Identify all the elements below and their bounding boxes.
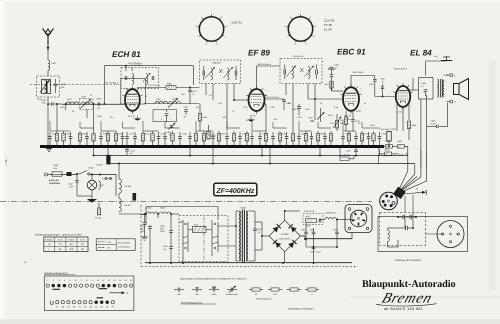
resistor R409: [198, 104, 208, 131]
svg-text:0,5μF: 0,5μF: [316, 251, 322, 254]
svg-text:4: 4: [224, 36, 225, 39]
resistor R414: [378, 149, 398, 156]
wire plug feeders: [408, 146, 427, 181]
svg-text:12V: 12V: [107, 241, 111, 244]
svg-text:C 440: C 440: [421, 82, 427, 85]
svg-text:C422: C422: [242, 133, 247, 136]
svg-text:4,5V/0,75mA·A: 4,5V/0,75mA·A: [266, 96, 280, 99]
capacitor C415: [323, 132, 327, 146]
svg-text:4: 4: [313, 36, 314, 39]
svg-text:Rot·: Rot·: [434, 55, 438, 58]
capacitor C415: [163, 132, 167, 146]
IF transformer L404 dashed box: [121, 68, 159, 89]
svg-text:12,6V/0,6A: 12,6V/0,6A: [49, 182, 60, 185]
node heater junction: [76, 173, 78, 175]
wire EF89 anode right: [264, 96, 284, 99]
svg-text:3: 3: [226, 25, 227, 28]
wire node tie: [123, 127, 136, 129]
choke Dr600: [319, 212, 352, 224]
svg-text:Bremen: Bremen: [380, 291, 435, 307]
capacitor C438: [351, 111, 359, 131]
svg-text:ab Gerät G 140 001: ab Gerät G 140 001: [384, 307, 423, 311]
svg-text:EBC 91: EBC 91: [232, 21, 243, 25]
wire EF89 anode up: [257, 66, 281, 89]
resistor R443 below bus: [340, 154, 354, 161]
resistor R444: [232, 131, 235, 146]
svg-text:234: 234: [110, 116, 113, 119]
supply dashed bottom border: [141, 266, 358, 268]
svg-text:1M: 1M: [288, 102, 291, 105]
svg-text:EL 84: EL 84: [410, 49, 432, 58]
wire top B+ bar: [426, 56, 452, 76]
svg-text:Spannungen und Ströme gemes: Spannungen und Ströme gemessen mit Multi…: [180, 278, 247, 281]
IF1 left cell: [125, 68, 134, 85]
svg-text:1: 1: [211, 12, 212, 15]
wire EBC91 grid: [308, 98, 343, 100]
capacitor C422: [238, 132, 246, 146]
coil L402: [66, 98, 79, 104]
svg-text:Dr402: Dr402: [146, 207, 152, 210]
legend trimmer: [226, 286, 238, 297]
resistor R414: [141, 131, 149, 146]
tube socket top view EBC91: [196, 12, 228, 45]
coil L405: [155, 98, 168, 104]
ground C430: [328, 67, 335, 69]
svg-text:2: 2: [310, 16, 311, 19]
svg-text:C408: C408: [182, 133, 187, 136]
transformer core: [242, 210, 244, 263]
svg-text:R401: R401: [60, 106, 65, 109]
fuse Si404: [52, 172, 62, 176]
vibrator contacts left: [183, 220, 188, 256]
capacitor C432: [427, 120, 438, 129]
arrow E: [110, 291, 129, 295]
vibrator wires: [179, 222, 236, 263]
Zerhacker solid frame: [378, 217, 468, 252]
svg-text:50: 50: [72, 110, 74, 113]
svg-text:ECH 81: ECH 81: [324, 19, 335, 23]
loudspeaker: [454, 79, 469, 100]
Zerhacker coil: [388, 228, 399, 247]
capacitor C608: [310, 228, 316, 247]
svg-text:C420: C420: [52, 133, 57, 136]
output transformer windings: [437, 79, 444, 98]
resistor R406: [166, 83, 176, 90]
svg-text:R418: R418: [221, 133, 226, 136]
Zerhacker tube circle: [437, 221, 464, 248]
Zerhacker cap mid: [398, 217, 414, 230]
svg-text:R433: R433: [356, 110, 361, 113]
resistor R432: [360, 131, 368, 146]
svg-text:500: 500: [311, 120, 314, 123]
svg-text:R437: R437: [340, 119, 345, 122]
resistor R421: [329, 131, 332, 146]
svg-text:0,1: 0,1: [232, 110, 235, 113]
svg-text:R438: R438: [370, 124, 375, 127]
wire speaker return: [439, 103, 447, 126]
wire node tie: [80, 127, 94, 129]
resistor R413: [397, 140, 408, 148]
wire antenna down: [47, 45, 49, 60]
svg-text:R1 400: R1 400: [96, 164, 103, 167]
svg-text:ZF=400KHz: ZF=400KHz: [215, 188, 254, 195]
svg-text:Blaupunkt-Autoradio: Blaupunkt-Autoradio: [362, 279, 456, 290]
IF2 coupling: [219, 69, 223, 73]
punch card frame: [44, 276, 133, 311]
capacitor C409: [99, 132, 107, 146]
punch row1 bars: [53, 288, 108, 291]
svg-text:50: 50: [145, 95, 147, 98]
svg-text:L404/C409·A: L404/C409·A: [130, 64, 143, 67]
svg-text:6: 6: [206, 42, 207, 45]
capacitor C403: [54, 79, 58, 93]
svg-text:EF 89: EF 89: [324, 23, 332, 27]
ground lamp: [87, 190, 97, 203]
wire EL84 drop lines: [397, 95, 427, 170]
svg-text:Si404: Si404: [53, 164, 59, 167]
Zerhacker dashed box: [380, 213, 426, 246]
svg-text:Rb 404: Rb 404: [125, 185, 132, 188]
wires IF3 down: [286, 84, 315, 132]
svg-text:7: 7: [170, 118, 171, 121]
resistor R423: [372, 131, 375, 146]
tube socket top view ECH81/EF89/EL84: [285, 12, 317, 45]
ground symbol left: [46, 146, 52, 151]
wire choke junctions: [145, 213, 172, 225]
svg-text:/150V: /150V: [160, 230, 166, 233]
capacitor C441: [68, 174, 92, 196]
capacitor C428: [292, 104, 301, 115]
ground triode cathode: [134, 116, 142, 121]
svg-text:gemessen im M4ß: gemessen im M4ß: [62, 233, 82, 236]
transformer primary winding: [239, 211, 240, 261]
svg-text:1: 1: [47, 279, 48, 282]
svg-text:1: 1: [394, 105, 395, 108]
wire C601 junction: [305, 238, 338, 248]
svg-text:Ü 402: Ü 402: [443, 74, 449, 77]
wire node tie: [196, 130, 213, 132]
svg-text:C405: C405: [41, 99, 47, 102]
legend cap 5000: [209, 287, 219, 296]
svg-text:6V: 6V: [70, 243, 73, 246]
svg-text:Si 400: Si 400: [88, 167, 95, 170]
svg-text:Schaltung des Zerhackers: Schaltung des Zerhackers: [395, 259, 423, 262]
resistor R408: [114, 131, 122, 146]
wire node tie: [299, 130, 312, 132]
capacitor C413: [184, 105, 190, 118]
capacitor padder: [161, 110, 171, 122]
svg-text:Mit Bezugspunkt: Mit Bezugspunkt: [256, 298, 272, 301]
svg-text:Rb 407: Rb 407: [125, 204, 132, 207]
svg-text:21: 21: [77, 306, 80, 309]
wire node tie: [318, 127, 331, 129]
resistor R428: [316, 131, 324, 146]
svg-text:R431: R431: [330, 122, 335, 125]
capacitor C609: [253, 222, 261, 250]
svg-text:R417: R417: [181, 93, 186, 96]
capacitor C416: [285, 132, 289, 146]
svg-text:250V/1,5mA·4: 250V/1,5mA·4: [394, 68, 408, 71]
punch row2 numbers: [56, 306, 115, 309]
tube EBC91: [341, 84, 362, 114]
svg-text:Brückenbetrieb: Brückenbetrieb: [118, 241, 130, 244]
svg-text:R423: R423: [262, 94, 267, 97]
svg-text:R414: R414: [145, 133, 150, 136]
chassis boundary dash-dot: [0, 201, 372, 203]
tube EL84: [393, 83, 413, 110]
capacitor C431: [369, 76, 396, 97]
trimmer C404: [166, 123, 176, 137]
resistor R446: [194, 131, 197, 146]
wire node tie: [252, 130, 266, 132]
svg-text:R432: R432: [364, 133, 369, 136]
svg-text:C601: C601: [301, 229, 306, 232]
svg-text:7: 7: [287, 36, 288, 39]
wire EF89 screen: [262, 104, 266, 131]
svg-text:8: 8: [196, 25, 197, 28]
wire EL84 anode: [409, 78, 419, 90]
svg-text:Z601: Z601: [194, 223, 198, 226]
B+ rail 2: [108, 163, 415, 165]
capacitor C604: [310, 247, 322, 263]
svg-text:R421: R421: [222, 116, 227, 119]
svg-text:SS 405: SS 405: [95, 217, 102, 220]
cable wedge: [393, 187, 406, 199]
svg-text:10E F/2,3kΩ·A: 10E F/2,3kΩ·A: [105, 82, 119, 85]
svg-text:1: 1: [342, 108, 343, 111]
svg-text:50V/1,5mA: 50V/1,5mA: [353, 71, 364, 74]
svg-text:6,3V/1,4A: 6,3V/1,4A: [49, 179, 59, 182]
capacitor C427: [297, 132, 305, 146]
svg-text:5: 5: [305, 42, 306, 45]
wire node tie: [101, 130, 116, 132]
bridge rectifier Gl600: [269, 220, 300, 251]
IF3 right cell: [305, 65, 318, 80]
svg-text:7: 7: [198, 36, 199, 39]
wire node tie: [143, 130, 159, 132]
label socket2 tubes: [324, 19, 335, 32]
capacitor C425: [133, 132, 137, 146]
antenna: [43, 29, 54, 52]
resistor R418: [217, 131, 225, 146]
svg-text:PO: PO: [456, 233, 459, 236]
ground EF89 cathode: [247, 117, 255, 122]
svg-text:7: 7: [141, 90, 142, 93]
wire RF line: [62, 103, 125, 105]
capacitor C437: [225, 132, 229, 146]
svg-text:5: 5: [216, 42, 217, 45]
svg-text:C602: C602: [140, 225, 145, 228]
svg-text:1: 1: [124, 108, 125, 111]
supply dashed left border: [140, 205, 142, 267]
svg-text:7: 7: [360, 88, 361, 91]
capacitor C440: [188, 132, 192, 146]
wire supply top feed: [146, 207, 218, 221]
svg-text:20: 20: [258, 231, 260, 234]
svg-text:C620: C620: [257, 228, 262, 231]
wire tuner to mixer line: [47, 97, 49, 104]
wires socket: [351, 213, 353, 239]
resistor R412: [384, 140, 397, 148]
transformer secondary winding: [246, 211, 247, 261]
potentiometer R427: [309, 108, 325, 122]
svg-text:Gl 600: Gl 600: [281, 233, 289, 236]
terminal lug: [133, 193, 137, 201]
resistor R423: [92, 131, 95, 146]
svg-text:Schaltungsspannungen: Schaltungsspannungen: [35, 233, 61, 236]
svg-text:E: E: [127, 292, 129, 295]
svg-text:R415: R415: [206, 133, 211, 136]
svg-text:C415: C415: [218, 102, 223, 105]
wire node tie: [273, 127, 287, 129]
svg-text:Schalterstellung bei M: Schalterstellung bei M: [44, 272, 68, 275]
capacitor C406: [96, 98, 102, 110]
svg-text:R405: R405: [66, 133, 71, 136]
battery contact: [45, 173, 53, 176]
wire node tie: [165, 127, 180, 129]
wire grid to RF line: [124, 103, 126, 105]
svg-text:L410/411·A: L410/411·A: [293, 55, 304, 58]
svg-text:9: 9: [290, 16, 291, 19]
wire node tie: [362, 127, 380, 129]
coil L401: [48, 60, 50, 70]
IF transformer L406/407 dashed box: [200, 60, 241, 84]
wires transformer: [235, 211, 255, 261]
capacitor C607: [142, 213, 148, 240]
svg-text:8: 8: [285, 25, 286, 28]
wire anode line y87.5: [137, 87, 200, 89]
wire osc line: [144, 103, 200, 105]
svg-text:Messber.: Messber.: [45, 238, 54, 241]
punch row2 holes: [50, 301, 114, 305]
resistor R426: [78, 131, 86, 146]
label voltages: [49, 164, 60, 185]
resistor R438: [106, 131, 109, 146]
svg-text:EBC 91: EBC 91: [337, 48, 366, 57]
label C403: [61, 83, 67, 89]
capacitor C433: [341, 132, 349, 146]
node RF junctions: [56, 103, 94, 105]
legend cap 600: [192, 288, 202, 297]
wire top B+ line: [104, 65, 194, 105]
title Bremen script: [376, 291, 442, 307]
svg-text:5V: 5V: [81, 243, 84, 246]
svg-text:5: 5: [140, 108, 141, 111]
capacitor C405 series: [41, 99, 62, 106]
supply bottom rail: [145, 262, 352, 264]
bus junction dots: [56, 145, 382, 147]
svg-text:R408: R408: [118, 133, 123, 136]
connector plug body: [380, 192, 398, 210]
svg-text:C425: C425: [270, 106, 275, 109]
capacitor C424: [258, 132, 266, 146]
vibrator contacts right: [212, 220, 218, 256]
IF3 left cell: [284, 65, 296, 80]
vibrator drive coil: [193, 223, 207, 232]
wire EBC anode to EL84: [351, 76, 375, 88]
svg-text:C427: C427: [301, 133, 306, 136]
svg-text:9: 9: [201, 16, 202, 19]
contact c lower: [447, 100, 457, 104]
resistor R415: [202, 131, 210, 146]
trimmer L403 dashed: [80, 96, 94, 110]
wire node tie: [50, 130, 71, 132]
svg-text:C436: C436: [346, 118, 351, 121]
resistor R434 cathode: [407, 121, 417, 140]
svg-text:Fahrerzeugnetz: Fahrerzeugnetz: [118, 245, 131, 248]
svg-text:480V/1,5mA·A: 480V/1,5mA·A: [258, 63, 272, 66]
capacitor C435 below bus: [344, 146, 358, 156]
resistor R436: [264, 131, 267, 146]
legend resistor 1/12: [268, 288, 282, 296]
svg-text:O-157: O-157: [99, 184, 105, 187]
capacitor C416: [157, 132, 165, 146]
vibrator center line: [203, 217, 205, 261]
antenna tuner dashed box: [37, 76, 60, 97]
wire heater to right: [90, 174, 116, 196]
resistor R442: [151, 131, 154, 146]
svg-text:R429: R429: [328, 114, 333, 117]
svg-text:ECH 81: ECH 81: [112, 50, 141, 59]
bridge wires: [255, 210, 352, 263]
caption Schalterstellung: [44, 272, 75, 275]
resistor R600: [306, 219, 323, 228]
capacitor C606: [333, 219, 339, 247]
resistor R439: [347, 131, 350, 146]
svg-text:Dr600/0,6mH: Dr600/0,6mH: [325, 212, 337, 215]
IF1 right cell: [143, 73, 154, 84]
svg-text:C603: C603: [160, 225, 165, 228]
ground bus: [40, 145, 384, 148]
dashed AGC line: [30, 84, 119, 86]
svg-text:7: 7: [265, 90, 266, 93]
capacitor C407: [188, 88, 197, 104]
wire a with arrow: [404, 188, 426, 195]
capacitor C446: [354, 132, 358, 146]
svg-text:EF 89: EF 89: [248, 49, 270, 58]
svg-text:5 mm: 5 mm: [80, 238, 85, 241]
svg-text:2: 2: [221, 16, 222, 19]
B+ rail 1: [94, 155, 408, 157]
svg-text:1M: 1M: [209, 94, 212, 97]
measurement table: [44, 237, 88, 252]
IF2 left cell: [203, 66, 215, 80]
svg-text:8V: 8V: [59, 248, 62, 251]
svg-text:C402: C402: [51, 62, 57, 65]
punch row2 bar: [97, 297, 104, 299]
svg-text:50: 50: [246, 119, 248, 122]
resistor SS405: [95, 203, 102, 220]
svg-text:30k: 30k: [274, 118, 277, 121]
svg-text:5 mm: 5 mm: [58, 238, 63, 241]
tube ECH81: [122, 86, 142, 114]
svg-text:R426: R426: [82, 133, 87, 136]
wire drops front end: [57, 104, 94, 131]
svg-text:GRUETZ6·A: GRUETZ6·A: [304, 210, 315, 213]
svg-text:EL 84: EL 84: [324, 28, 332, 32]
svg-text:R428: R428: [320, 133, 325, 136]
svg-text:3,4V: 3,4V: [399, 153, 404, 156]
svg-text:C402: C402: [81, 96, 87, 99]
svg-text:C416: C416: [161, 133, 166, 136]
svg-text:R425: R425: [305, 108, 310, 111]
resistor R437: [340, 111, 348, 131]
svg-text:0,1μF: 0,1μF: [431, 122, 437, 125]
wires IF2 down: [206, 84, 234, 132]
fuse squiggle: [377, 145, 379, 163]
capacitor C434: [378, 132, 386, 146]
svg-text:5: 5: [411, 105, 412, 108]
